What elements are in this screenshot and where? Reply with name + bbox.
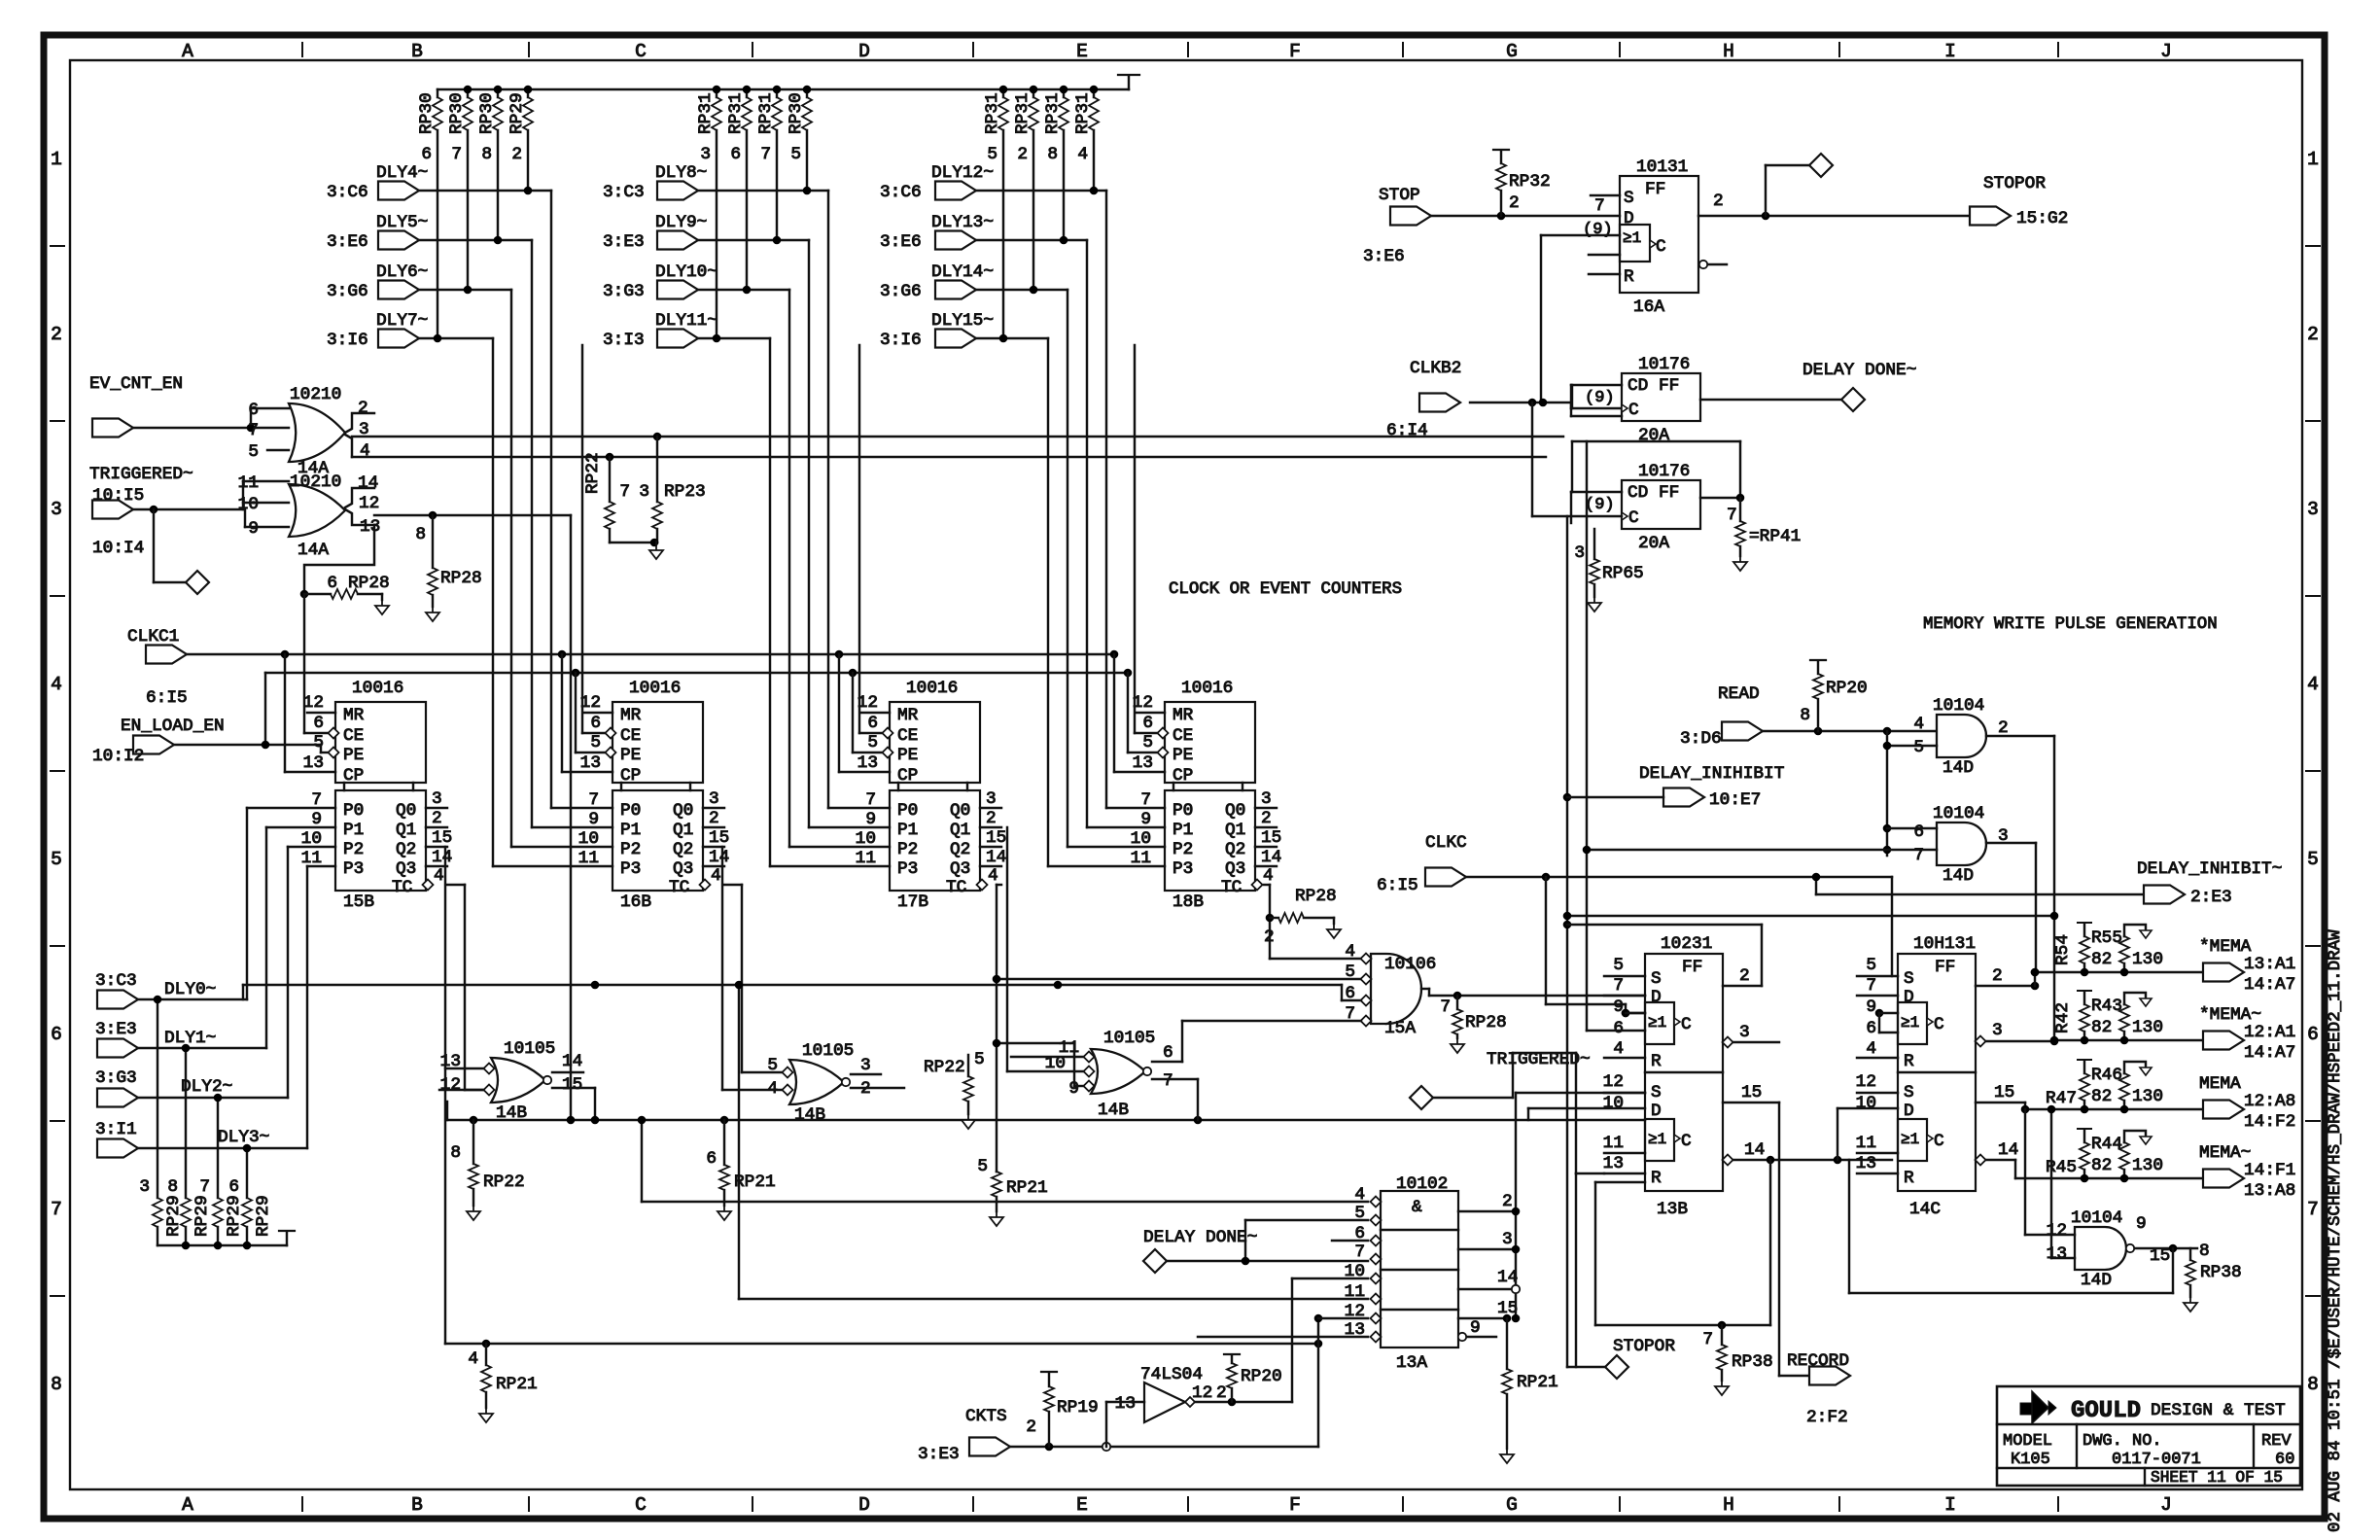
junction [1512, 1207, 1521, 1216]
svg-text:6: 6 [421, 145, 432, 164]
svg-text:J: J [2160, 41, 2172, 62]
svg-text:S: S [1651, 1083, 1662, 1102]
svg-text:82: 82 [2091, 1156, 2112, 1175]
svg-text:6: 6 [2307, 1024, 2319, 1045]
junction [713, 334, 721, 343]
svg-text:14: 14 [432, 848, 452, 867]
resistor RP21 pin 7 (13A) [1500, 1314, 1558, 1463]
title block [1997, 1386, 2300, 1486]
grid column labels bottom [182, 1494, 2172, 1516]
resistor RP32 pin 2 [1493, 150, 1551, 216]
svg-text:11: 11 [238, 473, 259, 493]
svg-text:Q0: Q0 [673, 801, 693, 821]
resistor RP28 pin 7 [1440, 996, 1506, 1053]
svg-text:I: I [1944, 1494, 1956, 1516]
wire DLY14~ [976, 290, 1165, 847]
resistor RP19 pin 2 [1026, 1372, 1098, 1447]
svg-text:3:G3: 3:G3 [95, 1068, 137, 1088]
svg-text:RP28: RP28 [1465, 1013, 1507, 1032]
svg-text:9: 9 [588, 810, 599, 829]
svg-text:S: S [1651, 969, 1662, 989]
wire 13A input 13 [1198, 1336, 1368, 1338]
svg-text:13: 13 [360, 517, 380, 537]
and-gate U14D-3 10104 [2047, 1208, 2171, 1290]
svg-text:6: 6 [51, 1024, 62, 1045]
svg-text:13:A8: 13:A8 [2244, 1181, 2295, 1201]
wire 20A-2 output loop [1572, 385, 1740, 498]
node CLKC input flag [1377, 833, 1467, 895]
wire 14C out 3 to DELAY_INHIBIT~ [1976, 1021, 2055, 1047]
svg-text:GOULD: GOULD [2071, 1398, 2141, 1424]
wire DLY13~ [976, 240, 1165, 827]
wire PE distribution [265, 672, 1128, 674]
svg-text:6: 6 [590, 714, 601, 733]
junction [524, 187, 533, 195]
svg-text:5: 5 [51, 849, 62, 870]
svg-text:10210: 10210 [290, 385, 341, 404]
junction [1124, 669, 1159, 752]
svg-text:6: 6 [867, 714, 878, 733]
svg-text:Q1: Q1 [1225, 821, 1245, 840]
flip-flop U16A 10131 [1583, 157, 1727, 317]
svg-text:CD FF: CD FF [1627, 376, 1679, 396]
svg-text:3:G6: 3:G6 [880, 282, 922, 301]
svg-text:5: 5 [974, 1050, 985, 1069]
svg-text:P3: P3 [620, 859, 641, 879]
svg-text:11: 11 [856, 849, 876, 868]
resistor RP30 pin 5 [787, 89, 812, 191]
resistor RP31 pin 7 [756, 89, 782, 240]
svg-text:MR: MR [343, 706, 365, 725]
svg-text:P0: P0 [897, 801, 918, 821]
svg-text:13: 13 [857, 753, 878, 773]
svg-text:10105: 10105 [504, 1039, 555, 1059]
svg-text:RP28: RP28 [1295, 887, 1337, 906]
junction [243, 1242, 252, 1250]
svg-text:74LS04: 74LS04 [1140, 1365, 1203, 1384]
svg-text:1: 1 [2307, 149, 2319, 170]
svg-text:4: 4 [1263, 866, 1274, 886]
svg-text:DLY11~: DLY11~ [655, 311, 717, 331]
and-gate U14D-2 10104 [1913, 804, 2008, 886]
grid row labels left [51, 149, 64, 1395]
junction [803, 187, 812, 195]
or-gate U14A-1 10210 [248, 385, 374, 478]
junction [1090, 86, 1099, 94]
svg-text:MR: MR [1172, 706, 1194, 725]
svg-text:14:A7: 14:A7 [2244, 975, 2295, 995]
svg-text:5: 5 [1613, 956, 1624, 975]
wire CP drop [839, 654, 890, 772]
wire 13A input 11 [735, 981, 1368, 1299]
svg-text:B: B [411, 1494, 423, 1516]
svg-text:CLKB2: CLKB2 [1410, 359, 1461, 378]
node TRIGGERED~ input flag [89, 465, 193, 558]
svg-text:12: 12 [359, 494, 379, 513]
svg-text:CLKC1: CLKC1 [127, 627, 179, 647]
counter U17B 10016 [856, 679, 1007, 912]
junction [849, 669, 884, 752]
svg-text:RP29: RP29 [254, 1195, 273, 1237]
svg-text:3: 3 [1992, 1021, 2003, 1040]
svg-text:7: 7 [760, 145, 771, 164]
junction [1528, 399, 1548, 407]
flip-flop U14C 10H131 [1856, 934, 1976, 1219]
resistor RP21 pin 6 [706, 1116, 775, 1220]
svg-text:P0: P0 [1172, 801, 1193, 821]
svg-text:RP31: RP31 [1073, 92, 1093, 134]
wire 13B out 3 [1723, 1023, 1780, 1048]
svg-text:12: 12 [303, 693, 324, 713]
junction [1622, 1009, 1630, 1018]
wire STOP to 16A D [1431, 215, 1620, 217]
svg-text:2: 2 [51, 324, 62, 345]
flip-flop U20A-2 10176 [1571, 462, 1700, 553]
svg-text:10104: 10104 [1933, 804, 1984, 823]
wire CP drop [562, 654, 612, 772]
junction [150, 506, 158, 514]
svg-text:15: 15 [986, 828, 1006, 848]
svg-text:8: 8 [1800, 706, 1810, 725]
svg-text:P3: P3 [343, 859, 364, 879]
svg-text:4: 4 [468, 1349, 478, 1369]
node TRIGGERED~ diamond connector [186, 571, 209, 594]
svg-text:CLKC: CLKC [1425, 833, 1467, 853]
junction [591, 981, 600, 990]
svg-text:G: G [1506, 1494, 1518, 1516]
wire DLY9~ [698, 240, 890, 827]
node diamond connector (16A) [1809, 154, 1833, 177]
svg-text:CKTS: CKTS [965, 1407, 1007, 1426]
svg-text:6: 6 [248, 401, 259, 420]
svg-text:2: 2 [1017, 145, 1028, 164]
svg-text:2: 2 [511, 145, 522, 164]
svg-text:13: 13 [580, 753, 601, 773]
svg-text:14: 14 [358, 473, 378, 493]
svg-text:10210: 10210 [290, 472, 341, 492]
resistor RP31 pin 4 [1073, 89, 1099, 191]
svg-text:RP29: RP29 [225, 1195, 244, 1237]
svg-text:12: 12 [1192, 1383, 1212, 1403]
logo GOULD [2020, 1391, 2056, 1423]
wire 15A output [1421, 989, 1645, 996]
svg-text:2: 2 [986, 809, 997, 828]
svg-text:7: 7 [199, 1177, 210, 1197]
wire DLY3~ [138, 866, 335, 1198]
wire 16A (9) input [1541, 235, 1620, 402]
wire 14C out 14 to MEMA~ [1976, 1140, 2019, 1178]
svg-text:RP22: RP22 [483, 1172, 525, 1192]
and-gate U15A 10106 [1345, 942, 1436, 1038]
svg-text:15: 15 [562, 1075, 582, 1095]
wire RP22/RP23 common [610, 539, 663, 559]
svg-text:3:E6: 3:E6 [1363, 247, 1405, 266]
resistor network R45/R44 and node MEMA~ output flag [2015, 1129, 2295, 1201]
junction [494, 86, 503, 94]
wire to TRIGGERED~ diamond [154, 509, 186, 582]
wire 14D-3 output [2135, 1247, 2197, 1249]
svg-text:5: 5 [313, 733, 324, 752]
svg-text:≥1: ≥1 [1648, 1014, 1666, 1032]
junction [494, 236, 503, 245]
svg-text:3: 3 [986, 789, 997, 809]
svg-text:3: 3 [1574, 543, 1585, 563]
svg-text:14A: 14A [297, 541, 329, 560]
svg-text:9: 9 [248, 519, 259, 539]
resistor RP29 pin 6 [228, 1177, 273, 1245]
svg-text:Q1: Q1 [950, 821, 970, 840]
node STOP input flag [1363, 186, 1431, 266]
svg-text:6: 6 [1866, 1019, 1876, 1038]
svg-text:D: D [858, 41, 870, 62]
junction [182, 1044, 191, 1053]
junction [1563, 912, 2059, 921]
svg-text:F: F [1289, 41, 1301, 62]
svg-text:3:C6: 3:C6 [880, 183, 922, 202]
wire long net 1152 [447, 1102, 1645, 1120]
svg-text:CP: CP [343, 766, 364, 786]
svg-text:5: 5 [987, 145, 997, 164]
svg-text:5: 5 [248, 442, 259, 462]
junction [464, 86, 472, 94]
svg-text:Q0: Q0 [950, 801, 970, 821]
svg-text:14C: 14C [1909, 1200, 1941, 1219]
svg-text:CD FF: CD FF [1627, 483, 1679, 503]
svg-text:2: 2 [1502, 1192, 1513, 1211]
svg-text:4: 4 [1866, 1039, 1876, 1059]
wire 14B-3 pin 9 [997, 1043, 1083, 1086]
svg-text:RP65: RP65 [1602, 564, 1644, 583]
svg-text:9: 9 [2136, 1214, 2147, 1234]
svg-text:Q0: Q0 [396, 801, 416, 821]
svg-text:5: 5 [977, 1157, 988, 1176]
svg-text:14D: 14D [2081, 1271, 2112, 1290]
svg-text:14: 14 [1261, 848, 1281, 867]
svg-text:8: 8 [51, 1374, 62, 1395]
svg-text:DLY3~: DLY3~ [218, 1128, 269, 1147]
svg-text:DLY2~: DLY2~ [181, 1077, 232, 1097]
svg-text:EV_CNT_EN: EV_CNT_EN [89, 374, 183, 394]
svg-text:7: 7 [1163, 1071, 1173, 1091]
svg-text:12:A1: 12:A1 [2244, 1023, 2295, 1042]
svg-text:12: 12 [1603, 1072, 1624, 1092]
svg-text:2: 2 [1509, 193, 1520, 213]
svg-text:CE: CE [343, 726, 364, 746]
svg-text:3: 3 [639, 482, 649, 502]
svg-text:7: 7 [248, 421, 259, 440]
svg-text:15: 15 [1741, 1083, 1762, 1102]
svg-text:14:F2: 14:F2 [2244, 1112, 2295, 1132]
junction [1090, 187, 1099, 195]
svg-text:RP29: RP29 [507, 92, 527, 134]
node DELAY DONE~ diamond (top) [1802, 361, 1916, 411]
wire DLY4~ [419, 191, 612, 808]
svg-text:C: C [1628, 508, 1639, 528]
svg-text:DLY4~: DLY4~ [376, 163, 428, 183]
svg-text:3:C6: 3:C6 [327, 183, 368, 202]
junction [1045, 1314, 1323, 1452]
junction [1030, 286, 1038, 295]
node DLY12~ input flag [880, 163, 994, 202]
svg-text:B: B [411, 41, 423, 62]
plot file annotation (rotated) [2326, 929, 2345, 1532]
svg-text:P1: P1 [620, 821, 641, 840]
wire 14C pin9 junction [1875, 1009, 1898, 1032]
svg-text:3:I1: 3:I1 [95, 1120, 137, 1139]
wire top pull-up bus [437, 76, 1129, 89]
svg-text:8: 8 [450, 1143, 461, 1163]
resistor RP38 pin 7 [1702, 1325, 1772, 1395]
svg-text:3:E3: 3:E3 [918, 1445, 960, 1464]
svg-text:2: 2 [358, 399, 368, 418]
svg-text:6:I5: 6:I5 [1377, 876, 1418, 895]
wire EN_LOAD_EN [174, 673, 328, 752]
label GOULD DESIGN & TEST [2071, 1398, 2286, 1424]
svg-text:10016: 10016 [352, 679, 403, 698]
svg-text:130: 130 [2132, 1087, 2163, 1106]
svg-text:3:D6: 3:D6 [1680, 729, 1722, 749]
svg-text:2: 2 [1264, 927, 1275, 947]
svg-text:8: 8 [2199, 1242, 2210, 1261]
svg-text:5: 5 [1345, 962, 1355, 982]
svg-text:RP29: RP29 [164, 1195, 184, 1237]
svg-text:Q3: Q3 [673, 859, 693, 879]
svg-text:Q0: Q0 [1225, 801, 1245, 821]
node RECORD output flag [1787, 1351, 1850, 1427]
junction [653, 433, 662, 441]
junction [1060, 236, 1068, 245]
svg-text:10: 10 [1345, 1262, 1365, 1281]
svg-text:3: 3 [709, 789, 719, 809]
junction [1228, 1398, 1237, 1407]
svg-text:6: 6 [313, 714, 324, 733]
junction [1054, 981, 1063, 990]
junction [1736, 494, 1745, 503]
resistor RP38 pin 8 [2184, 1242, 2242, 1312]
svg-text:10104: 10104 [1933, 696, 1984, 716]
svg-text:C: C [1628, 401, 1639, 420]
wire 14B-3 output 7 loop [1197, 1079, 1199, 1120]
svg-text:7: 7 [588, 790, 599, 810]
junction [835, 650, 844, 659]
junction [1497, 212, 1506, 221]
svg-text:11: 11 [1603, 1134, 1624, 1153]
svg-text:10016: 10016 [1181, 679, 1233, 698]
svg-text:FF: FF [1682, 958, 1702, 977]
junction [567, 1116, 576, 1125]
node DLY9~ input flag [603, 213, 707, 252]
svg-text:2:F2: 2:F2 [1806, 1408, 1848, 1427]
wire 13B R input [1576, 1173, 1604, 1367]
svg-text:*MEMA: *MEMA [2199, 937, 2252, 957]
svg-text:RP20: RP20 [1826, 679, 1868, 698]
svg-text:(9): (9) [1585, 496, 1615, 514]
svg-text:STOPOR: STOPOR [1613, 1337, 1675, 1356]
svg-text:DLY8~: DLY8~ [655, 163, 707, 183]
resistor network R42/R43 and node *MEMA~ output flag [2053, 991, 2295, 1063]
wire DLY0~ [138, 808, 335, 1198]
resistor RP21 pin 5 [977, 1157, 1047, 1226]
junction [1718, 1321, 1727, 1330]
svg-text:D: D [1904, 988, 1914, 1007]
svg-text:RP38: RP38 [1732, 1352, 1773, 1372]
resistor RP28 pin 8 [415, 515, 481, 621]
svg-text:MR: MR [897, 706, 919, 725]
svg-text:14B: 14B [1098, 1101, 1129, 1120]
junction [993, 1039, 1001, 1048]
svg-text:CP: CP [897, 766, 918, 786]
wire CE feed [582, 345, 607, 733]
wire 14B-3 pin 11 [1011, 1056, 1083, 1058]
svg-text:9: 9 [1140, 810, 1151, 829]
svg-text:11: 11 [1131, 849, 1151, 868]
node DLY7~ input flag [327, 311, 428, 350]
node DLY10~ input flag [603, 262, 717, 301]
resistor RP21 pin 4 [468, 1344, 537, 1422]
svg-text:FF: FF [1645, 180, 1665, 199]
junction [1266, 914, 1275, 923]
svg-text:10102: 10102 [1396, 1174, 1448, 1194]
svg-text:12: 12 [580, 693, 601, 713]
svg-text:9: 9 [865, 810, 876, 829]
svg-text:&: & [1412, 1198, 1422, 1217]
wire DLY7~ [419, 338, 612, 866]
inverter U74LS04 74LS04 [1115, 1365, 1227, 1422]
node CLKC1 input flag [127, 627, 188, 708]
svg-text:P0: P0 [343, 801, 364, 821]
wire 18B TC chain [1264, 885, 1365, 959]
svg-text:15: 15 [432, 828, 452, 848]
wire CLKC1 distribution [187, 653, 1114, 655]
svg-text:RP23: RP23 [664, 482, 706, 502]
svg-text:S: S [1904, 1083, 1914, 1102]
svg-text:3: 3 [1261, 789, 1272, 809]
wire DLY8~ [698, 191, 890, 808]
node DLY4~ input flag [327, 163, 428, 202]
svg-text:4: 4 [1077, 145, 1088, 164]
svg-text:R43: R43 [2091, 997, 2122, 1016]
svg-text:PE: PE [1172, 746, 1193, 765]
svg-text:3:C3: 3:C3 [95, 971, 137, 991]
svg-text:R42: R42 [2053, 1002, 2073, 1033]
wire 15B TC chain [447, 885, 483, 1090]
svg-text:Q2: Q2 [396, 840, 416, 859]
wire 14B-1 input 12 [439, 1089, 483, 1091]
wire vertical trunk (右) [1566, 516, 1568, 1367]
wire 16A output 2 [1698, 192, 1970, 216]
node DLY13~ input flag [880, 213, 994, 252]
svg-text:13: 13 [1133, 753, 1153, 773]
junction [429, 511, 437, 520]
svg-text:130: 130 [2132, 1156, 2163, 1175]
junction [1453, 992, 1462, 1000]
svg-text:15:G2: 15:G2 [2016, 209, 2068, 228]
svg-text:FF: FF [1935, 958, 1955, 977]
svg-text:10176: 10176 [1638, 462, 1690, 481]
wire DLY12~ [976, 191, 1165, 808]
resistor RP29 pin 8 [167, 1177, 212, 1245]
node STOPOR diamond [1567, 1337, 1675, 1379]
wire DLY6~ [419, 290, 612, 847]
resistor RP31 pin 8 [1043, 89, 1068, 240]
svg-text:14: 14 [1998, 1140, 2018, 1160]
svg-text:13: 13 [440, 1052, 461, 1071]
junction [558, 650, 567, 659]
svg-text:TC: TC [392, 878, 412, 897]
junction [2021, 968, 2059, 1114]
svg-text:16A: 16A [1633, 297, 1664, 317]
svg-text:MR: MR [620, 706, 642, 725]
